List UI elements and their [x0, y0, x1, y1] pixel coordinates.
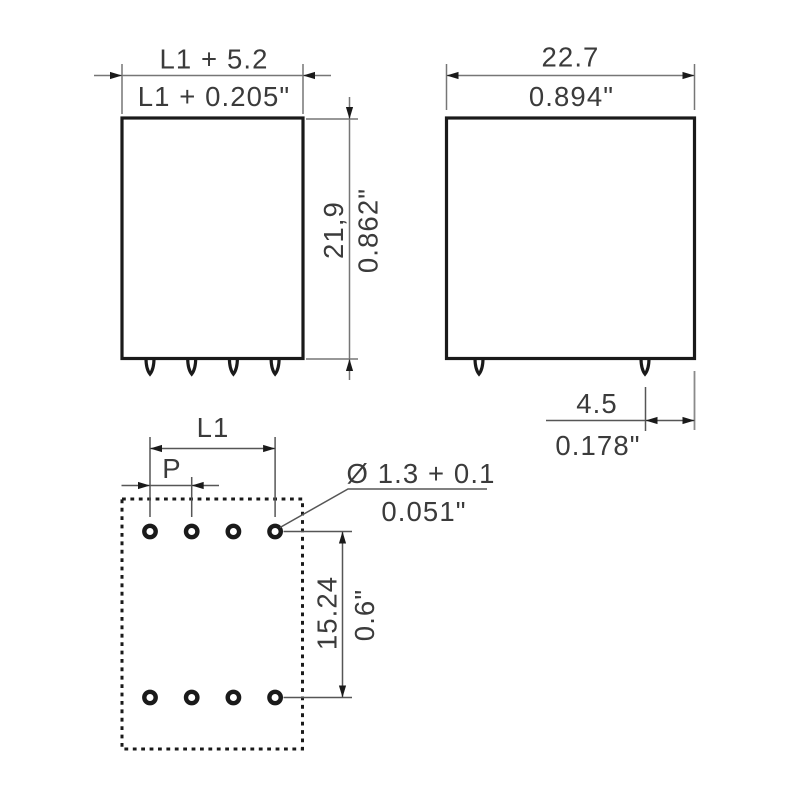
dimension 4.5 extension line right [694, 371, 696, 430]
footprint view dashed outline [122, 499, 303, 749]
dimension P right arrowhead [192, 482, 204, 489]
dimension L1 right arrowhead [263, 445, 275, 452]
label 15.24 [312, 576, 343, 650]
pin 4 (front view) [271, 358, 279, 374]
dimension 4.5 left arrowhead [646, 417, 658, 424]
dimension 15.24 dimension line [342, 532, 344, 698]
label 0.051 inch [381, 496, 466, 527]
front view housing outline [122, 118, 303, 359]
dimension 4.5 extension line at pin [645, 387, 647, 431]
label L1 + 0.205 inch [138, 81, 291, 112]
label 22.7 [542, 42, 600, 73]
dimension 22.7 left arrowhead [447, 72, 459, 79]
dimension 4.5 dimension line [546, 420, 695, 422]
dimension L1 left arrowhead [150, 445, 162, 452]
hole 1 top row [144, 526, 155, 537]
dimension 21,9 bottom arrowhead [346, 359, 353, 371]
hole 8 bottom row [269, 692, 280, 703]
dimension L1 extension line right [274, 437, 276, 517]
label 4.5 [576, 388, 618, 419]
hole 7 bottom row [228, 692, 239, 703]
dimension L1+5.2 right arrowhead [303, 72, 315, 79]
svg-text:L1 + 0.205": L1 + 0.205" [138, 81, 291, 112]
pin 3 (front view) [229, 358, 237, 374]
svg-text:21,9: 21,9 [318, 201, 349, 259]
hole 3 top row [228, 526, 239, 537]
label L1 [197, 412, 230, 443]
svg-text:L1 + 5.2: L1 + 5.2 [160, 44, 269, 75]
svg-text:0.862": 0.862" [353, 188, 384, 273]
side view housing outline [447, 118, 695, 359]
pin 1 (front view) [146, 358, 154, 374]
dimension L1+5.2 extension line left [121, 64, 123, 114]
label P [162, 453, 181, 484]
hole 2 top row [186, 526, 197, 537]
pin right (side view) [641, 358, 649, 374]
dimension 21,9 dimension line [349, 97, 351, 380]
dimension P left arrowhead [138, 482, 150, 489]
svg-text:L1: L1 [197, 412, 230, 443]
label 0.6 inch [349, 589, 380, 641]
hole 4 top row [269, 526, 280, 537]
dimension L1+5.2 dimension line [94, 75, 331, 77]
dimension 4.5 right arrowhead [683, 417, 695, 424]
label 0.862 inch [353, 188, 384, 273]
hole 6 bottom row [186, 692, 197, 703]
svg-text:0.894": 0.894" [529, 81, 614, 112]
dimension 22.7 extension line right [694, 64, 696, 110]
dimension 21,9 extension line bottom [306, 358, 358, 360]
svg-text:P: P [162, 453, 181, 484]
dimension L1 extension line left [149, 437, 151, 517]
dimension L1 dimension line [150, 448, 275, 450]
svg-text:0.6": 0.6" [349, 589, 380, 641]
dimension L1+5.2 extension line right [302, 64, 304, 114]
svg-text:Ø 1.3 + 0.1: Ø 1.3 + 0.1 [347, 458, 496, 489]
label 0.178 inch [555, 430, 640, 461]
hole 5 bottom row [144, 692, 155, 703]
hole diameter leader line [280, 489, 487, 528]
pin left (side view) [475, 358, 483, 374]
dimension 15.24 extension line top [284, 531, 353, 533]
svg-text:15.24: 15.24 [312, 576, 343, 650]
dimension 15.24 top arrowhead [339, 532, 346, 544]
dimension 22.7 right arrowhead [683, 72, 695, 79]
dimension P extension line [191, 477, 193, 517]
svg-text:4.5: 4.5 [576, 388, 618, 419]
svg-text:0.051": 0.051" [381, 496, 466, 527]
dimension 21,9 top arrowhead [346, 107, 353, 119]
label 0.894 inch [529, 81, 614, 112]
label L1 + 5.2 [160, 44, 269, 75]
svg-text:0.178": 0.178" [555, 430, 640, 461]
dimension 15.24 bottom arrowhead [339, 686, 346, 698]
label diameter 1.3 + 0.1 [347, 458, 496, 489]
dimension 22.7 extension line left [446, 64, 448, 110]
svg-text:22.7: 22.7 [542, 42, 600, 73]
dimension L1+5.2 left arrowhead [110, 72, 122, 79]
pin 2 (front view) [188, 358, 196, 374]
dimension 21,9 extension line top [306, 118, 358, 120]
dimension 22.7 dimension line [447, 75, 695, 77]
dimension P dimension line [122, 485, 220, 487]
label 21,9 [318, 201, 349, 259]
dimension 15.24 extension line bottom [284, 697, 353, 699]
